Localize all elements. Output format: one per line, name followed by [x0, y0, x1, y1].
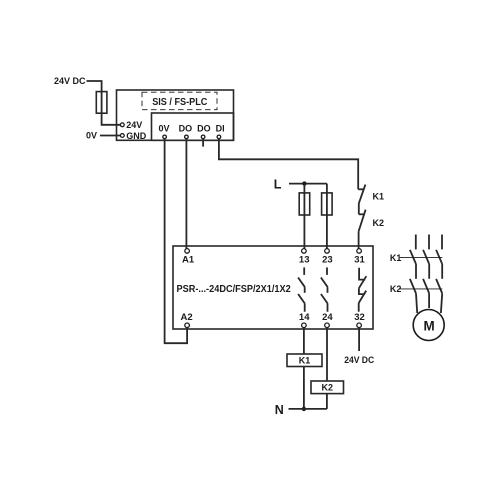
label SIS / FS-PLC: [152, 97, 207, 108]
terminal DI: [216, 124, 225, 139]
label K1 aux: [373, 191, 385, 201]
fuse F3: [322, 193, 333, 215]
terminal 24V: [120, 120, 142, 130]
contact K1 NC aux: [358, 185, 365, 204]
svg-text:K2: K2: [322, 383, 334, 393]
terminal 13: [299, 249, 310, 266]
contactor K2 contacts: [410, 279, 442, 294]
svg-text:0V: 0V: [158, 124, 169, 134]
label PSR type: [177, 284, 292, 295]
net label 0V: [86, 130, 97, 140]
svg-text:L: L: [274, 177, 282, 191]
coil K1: [287, 354, 322, 367]
wires K1 to K2: [416, 264, 442, 279]
terminal 32: [354, 312, 365, 328]
terminal 23: [322, 249, 333, 266]
svg-text:24V DC: 24V DC: [344, 355, 374, 365]
wires to motor: [416, 293, 442, 313]
terminal A2: [181, 312, 193, 328]
phase line 3: [441, 235, 443, 250]
wire 24V DC to fuse F1: [87, 81, 121, 125]
net label 24V DC supply: [54, 76, 86, 86]
contact 31-32 NC: [359, 268, 367, 312]
wire 0V feed: [100, 135, 121, 137]
fuse F2: [299, 193, 310, 215]
svg-text:0V: 0V: [86, 130, 97, 140]
svg-text:24V: 24V: [126, 120, 142, 130]
svg-text:DI: DI: [216, 124, 225, 134]
wire contact K1 to contact K2: [358, 203, 360, 214]
svg-text:DO: DO: [197, 124, 211, 134]
relay U1 PSR box: [173, 246, 373, 329]
contactor K1 contacts: [410, 250, 442, 264]
wire N: [289, 408, 327, 410]
contact K2 NC aux: [359, 210, 366, 232]
terminal 31: [354, 249, 365, 266]
label K2 aux: [373, 218, 385, 228]
svg-text:K1: K1: [373, 191, 385, 201]
net label L: [274, 177, 282, 191]
terminal DO second: [197, 124, 211, 139]
junction N: [302, 407, 306, 411]
svg-text:K1: K1: [390, 253, 402, 263]
coil K2: [311, 381, 344, 394]
PLC terminal strip box: [152, 113, 234, 140]
wire 0V to A2: [165, 139, 188, 343]
wire contact K2 to terminal 31: [358, 231, 360, 248]
wire 32 to 24V DC: [358, 328, 360, 351]
svg-text:A1: A1: [182, 254, 195, 265]
dashed box SIS / FS-PLC: [142, 92, 217, 110]
terminal A1: [182, 249, 195, 266]
terminal GND: [120, 131, 146, 141]
svg-text:PSR-...-24DC/FSP/2X1/1X2: PSR-...-24DC/FSP/2X1/1X2: [177, 284, 292, 295]
terminal 14: [299, 312, 310, 328]
junction L: [302, 181, 306, 185]
svg-text:A2: A2: [181, 312, 193, 323]
svg-text:SIS / FS-PLC: SIS / FS-PLC: [152, 97, 207, 108]
svg-text:K2: K2: [373, 218, 385, 228]
phase line 2: [428, 235, 430, 250]
terminal DO first: [179, 124, 193, 139]
svg-text:24: 24: [322, 312, 333, 323]
wire coil K2 to N: [326, 394, 328, 409]
wire 14 to coil K1: [303, 328, 305, 354]
svg-text:32: 32: [354, 312, 365, 323]
PLC main box: [117, 90, 234, 140]
svg-text:14: 14: [299, 312, 310, 323]
svg-text:13: 13: [299, 254, 310, 265]
linkage K2: [400, 288, 443, 290]
svg-text:24V DC: 24V DC: [54, 76, 86, 86]
svg-text:K1: K1: [299, 356, 311, 366]
svg-text:DO: DO: [179, 124, 193, 134]
linkage K1: [400, 257, 443, 259]
wire DI to contact K1: [219, 139, 358, 190]
label K2 contactor: [390, 284, 402, 294]
terminal 0V: [158, 124, 169, 139]
contact 13-14: [298, 267, 305, 311]
motor M1: [413, 310, 444, 341]
net label 24V DC return: [344, 355, 374, 365]
wire 24 to coil K2: [326, 328, 328, 381]
svg-text:31: 31: [354, 254, 365, 265]
wire DO to A1: [185, 139, 187, 249]
phase line 1: [415, 235, 417, 250]
wire L to terminal 13: [303, 184, 305, 249]
net label N: [275, 403, 284, 417]
terminal 24: [322, 312, 333, 328]
wire L to terminal 23: [326, 184, 328, 249]
svg-text:N: N: [275, 403, 284, 417]
svg-text:M: M: [424, 317, 435, 333]
label K1 contactor: [390, 253, 402, 263]
wire coil K1 to N: [303, 367, 305, 409]
contact 23-24: [321, 267, 328, 311]
fuse F1: [96, 92, 107, 114]
wire L: [289, 183, 327, 185]
svg-text:K2: K2: [390, 284, 402, 294]
svg-text:23: 23: [322, 254, 333, 265]
wire DO2 stub: [202, 139, 204, 147]
svg-text:GND: GND: [126, 131, 147, 141]
